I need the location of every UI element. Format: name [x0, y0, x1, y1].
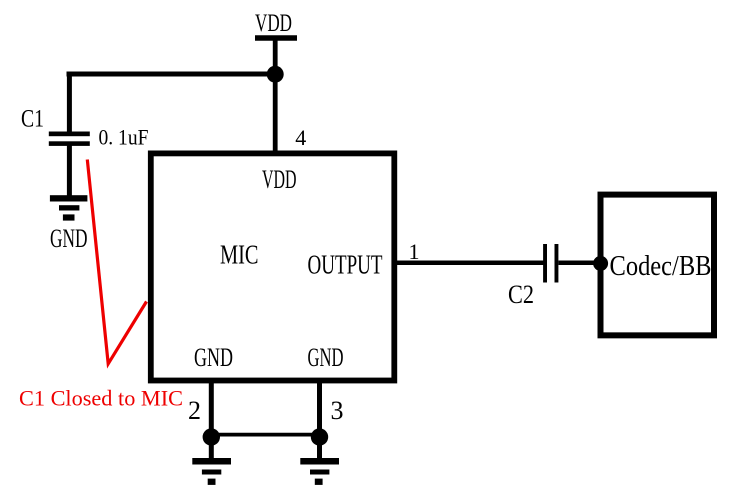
IC name MIC — [220, 240, 259, 270]
pin number 4 — [295, 125, 306, 150]
wire VDD vertical to pin 4 — [273, 38, 278, 156]
capacitor C2 plates — [543, 244, 558, 283]
svg-text:MIC: MIC — [220, 240, 259, 270]
capacitor C1 plates — [49, 132, 90, 146]
ground GND label — [50, 224, 88, 253]
annotation red text C1 Closed to MIC — [19, 386, 183, 411]
ground symbol left — [192, 458, 231, 485]
svg-text:4: 4 — [295, 125, 306, 150]
svg-text:C2: C2 — [508, 280, 534, 309]
power symbol VDD bar — [255, 35, 297, 41]
power symbol VDD label — [255, 10, 292, 37]
ground symbol below C1 — [50, 195, 88, 220]
svg-text:0. 1uF: 0. 1uF — [99, 125, 149, 150]
value label 0.1uF — [99, 125, 149, 150]
svg-text:3: 3 — [331, 396, 344, 425]
wire C2 to Codec box — [559, 261, 602, 266]
svg-text:C1 Closed to MIC: C1 Closed to MIC — [19, 386, 183, 411]
pin label OUTPUT inside box — [308, 250, 383, 280]
svg-text:GND: GND — [308, 343, 344, 372]
wire C1 bottom plate to ground — [67, 145, 72, 199]
wire pin 3 down — [317, 379, 322, 437]
svg-text:1: 1 — [409, 239, 420, 264]
pin label GND left inside box — [194, 343, 233, 372]
block Codec/BB box — [601, 195, 715, 336]
svg-text:GND: GND — [194, 343, 233, 372]
svg-text:2: 2 — [188, 396, 201, 425]
pin number 2 — [188, 396, 201, 425]
annotation red pointer line — [87, 160, 146, 364]
svg-text:OUTPUT: OUTPUT — [308, 250, 383, 280]
node junction below pin 3 — [311, 428, 328, 445]
wire vertical down to C1 top plate — [67, 72, 72, 135]
wire OUTPUT to C2 — [392, 261, 544, 266]
ground symbol right — [300, 458, 339, 485]
wire horizontal from junction to C1 — [67, 72, 276, 77]
svg-text:C1: C1 — [21, 106, 44, 133]
svg-text:VDD: VDD — [262, 164, 297, 194]
pin number 1 — [409, 239, 420, 264]
block label Codec/BB — [610, 250, 712, 282]
IC box MIC — [151, 153, 394, 380]
node junction at Codec input — [593, 256, 608, 271]
wire stub to right ground — [317, 437, 322, 461]
wire joining the two ground nodes — [211, 433, 319, 437]
svg-text:VDD: VDD — [255, 10, 292, 37]
node junction below pin 2 — [203, 428, 220, 445]
wire pin 2 down — [209, 379, 214, 437]
svg-text:GND: GND — [50, 224, 88, 253]
pin number 3 — [331, 396, 344, 425]
wire stub to left ground — [209, 437, 214, 461]
svg-text:Codec/BB: Codec/BB — [610, 250, 712, 282]
pin label VDD inside box — [262, 164, 297, 194]
pin label GND right inside box — [308, 343, 344, 372]
capacitor C1 label — [21, 106, 44, 133]
node junction on VDD wire — [267, 66, 284, 83]
capacitor C2 label — [508, 280, 534, 309]
